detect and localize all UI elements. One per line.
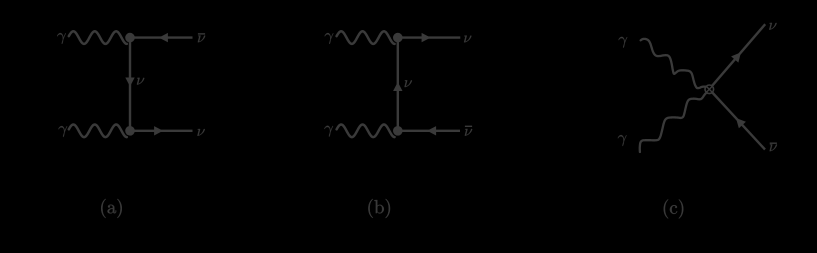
internal fermion propagator (a) [129, 38, 131, 131]
fermion line nubar-out (a top) [130, 36, 193, 38]
caption (b) [368, 199, 390, 218]
photon line gamma-1 (a top) [69, 31, 127, 44]
label nubar (a top-right) [198, 35, 205, 42]
label gamma (c bottom-left) [618, 135, 627, 146]
photon line gamma-1 (c top) [641, 39, 706, 88]
fermion line nubar-out (b bottom) [398, 130, 460, 132]
vertex dot (a top) [125, 33, 135, 43]
label gamma (b bottom-left) [324, 126, 333, 137]
vertex dot (a bottom) [125, 126, 135, 136]
fermion line nu-out (c) [712, 24, 765, 86]
effective vertex circle-cross (c) [705, 85, 714, 94]
internal fermion propagator (b) [397, 38, 399, 131]
arrow down (a internal) [125, 77, 134, 86]
arrow up (b internal) [393, 82, 402, 91]
label nu (a internal) [137, 78, 144, 85]
label gamma (b top-left) [325, 33, 334, 44]
arrow left (b bottom line) [427, 126, 436, 135]
label gamma (a bottom-left) [58, 126, 67, 137]
vertex dot (b bottom) [393, 126, 403, 136]
arrow up-left (c nubar line) [736, 118, 746, 128]
label nu (b internal) [405, 80, 412, 87]
label nu (c top-right) [769, 23, 776, 30]
label gamma (c top-left) [619, 37, 628, 48]
label nu (b top-right) [464, 36, 471, 43]
photon line gamma-2 (c bottom) [640, 93, 707, 152]
label gamma (a top-left) [57, 33, 66, 44]
fermion line nubar-in (c) [712, 93, 765, 150]
photon line gamma-2 (a bottom) [69, 125, 127, 138]
label nubar (c bottom-right) [770, 144, 777, 151]
arrow up-right (c nu line) [731, 52, 741, 62]
arrow right (a bottom line) [154, 126, 163, 135]
caption (c) [664, 199, 684, 218]
caption (a) [101, 199, 122, 218]
label nu (a bottom-right) [197, 129, 204, 136]
fermion line nu-out (b top) [398, 36, 461, 38]
arrow left (a top line) [159, 33, 168, 42]
vertex dot (b top) [393, 33, 403, 43]
photon line gamma-2 (b bottom) [337, 125, 395, 138]
fermion line nu-out (a bottom) [130, 130, 193, 132]
arrow right (b top line) [422, 33, 431, 42]
photon line gamma-1 (b top) [337, 31, 395, 44]
label nubar (b bottom-right) [465, 129, 472, 136]
